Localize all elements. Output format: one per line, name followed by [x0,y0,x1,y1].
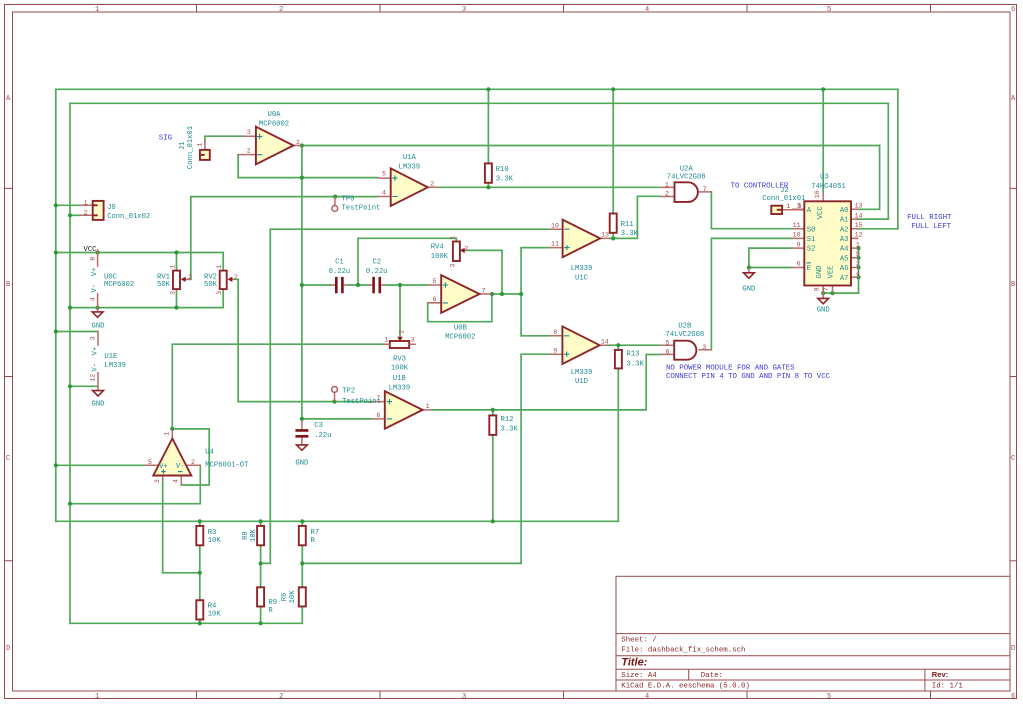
svg-text:LM339: LM339 [571,265,593,273]
wire U4 pin3 to R3/R4 node [163,480,200,573]
potentiometer RV3 [384,330,416,348]
ground symbol U3 [818,293,829,304]
svg-text:RV3: RV3 [393,356,406,364]
node R11 VCC [611,87,615,91]
wire C1C2 node to RV4 pin1 [358,238,456,285]
resistor R11 [610,214,617,233]
svg-text:A4: A4 [840,246,849,254]
svg-text:RV4: RV4 [431,244,444,252]
svg-text:3: 3 [154,479,161,483]
svg-text:100K: 100K [431,253,449,261]
wire RV3 pin1 to U4 out node [172,344,384,429]
svg-text:VCC: VCC [817,206,825,220]
svg-text:U1E: U1E [104,353,117,361]
svg-text:J0: J0 [107,204,116,212]
svg-text:74LVC2G08: 74LVC2G08 [665,331,704,339]
svg-text:LM339: LM339 [399,163,421,171]
svg-text:14: 14 [601,338,609,345]
connector J1 [197,140,210,160]
power unit U1E [90,332,100,387]
svg-text:3: 3 [449,263,456,267]
svg-text:C: C [1011,455,1015,463]
svg-text:2: 2 [191,459,195,466]
wire RV4 wiper to U0B out [466,250,502,294]
potentiometer RV2 [216,265,238,295]
wire C2 to U0B pin5 [385,284,428,286]
wire VCC to R10 top [487,89,489,163]
svg-text:R8: R8 [242,531,250,540]
svg-text:U3: U3 [820,174,829,182]
svg-text:1: 1 [95,693,99,701]
svg-text:A: A [807,207,812,215]
node U4 pin2 gnd [68,502,72,506]
svg-text:.22u: .22u [314,432,331,440]
svg-text:5: 5 [827,693,831,701]
svg-text:8: 8 [553,329,557,336]
svg-text:GND: GND [92,401,105,409]
node VCC rail left [54,250,58,254]
node R10 VCC [486,87,490,91]
node RV1 bottom [174,306,178,310]
svg-text:14: 14 [855,212,863,219]
wire to U1A pin5 [302,177,378,179]
svg-text:2: 2 [188,274,192,281]
svg-text:A3: A3 [840,236,849,244]
wire RV1 wiper stub [187,278,191,280]
svg-text:GND: GND [816,266,824,279]
wire VCC pullup rail bottom [56,520,619,522]
svg-text:5: 5 [666,340,670,347]
node R4 gnd [198,621,202,625]
svg-text:7: 7 [482,287,486,294]
node R8 top VCC [259,519,263,523]
power VCC flag [97,249,99,252]
svg-text:U0A: U0A [268,111,282,119]
svg-text:VCC: VCC [84,246,98,254]
svg-text:2: 2 [464,246,468,253]
svg-text:U1C: U1C [575,274,589,282]
svg-text:13: 13 [601,232,609,239]
resistor R3 [196,526,203,545]
power unit U0C [89,253,99,308]
resistor R9 [257,587,264,606]
svg-text:A7: A7 [840,275,849,283]
svg-text:V-: V- [91,284,99,293]
svg-text:D: D [1011,645,1015,653]
svg-text:A6: A6 [840,265,849,273]
svg-text:1: 1 [786,203,790,210]
node R3/R4 [198,571,202,575]
wire A0 drop [858,146,880,210]
svg-text:Rev:: Rev: [932,670,948,679]
wire GND bottom rail [70,622,302,624]
wire U3 A4-A7 strap [858,248,860,293]
side segment ticks [5,188,1017,560]
wire R3 bottom / R4 top [199,545,201,600]
wire RV2 bottom [222,291,224,308]
svg-text:R11: R11 [621,221,634,229]
node R13 top [616,343,620,347]
svg-text:1: 1 [84,199,88,206]
node U0A out [300,143,304,147]
svg-text:50K: 50K [157,281,171,289]
svg-text:MCP6002: MCP6002 [259,121,289,129]
wire J1 to U0A pin3 [205,136,243,141]
svg-text:3: 3 [247,129,251,136]
TITLEBLOCK [616,576,1010,691]
svg-text:CONNECT PIN 4 TO GND AND PIN 8: CONNECT PIN 4 TO GND AND PIN 8 TO VCC [666,373,831,381]
svg-text:6: 6 [666,348,670,355]
svg-text:5: 5 [382,171,386,178]
svg-text:TP0: TP0 [342,196,355,204]
svg-text:1: 1 [169,265,176,269]
svg-text:4: 4 [645,6,649,14]
op-amp U1B [372,391,433,429]
wire VCC to U4 pin5 [56,464,145,466]
svg-text:0.22u: 0.22u [329,268,351,276]
wire RV1 bottom [176,289,178,308]
node U3 pin16 VCC [821,87,825,91]
wire VCC top rail [56,88,898,90]
svg-text:NO POWER MODULE FOR AND GATES: NO POWER MODULE FOR AND GATES [666,365,795,373]
svg-text:TestPoint: TestPoint [342,205,381,213]
svg-text:13: 13 [855,203,863,210]
node S2/E gnd [747,265,751,269]
wire RV2 wiper to U1B pin7 [234,279,372,401]
svg-text:16: 16 [814,190,821,198]
svg-text:6: 6 [433,296,437,303]
connector J0 [80,199,104,220]
wire R12 bottom to VCC rail [492,435,494,521]
wire U2B out to S1 [711,238,792,349]
op-amp U1C [549,220,610,258]
svg-text:2: 2 [856,261,860,268]
svg-text:10: 10 [793,232,801,239]
node R7/R6 [300,561,304,565]
node R12 bottom VCC [491,519,495,523]
svg-text:GND: GND [817,307,830,315]
wire S2 to GND [749,248,792,267]
svg-text:TestPoint: TestPoint [342,398,381,406]
svg-text:R13: R13 [627,351,640,359]
svg-text:4: 4 [89,297,96,301]
svg-text:C1: C1 [335,258,344,266]
node R7 top VCC [300,519,304,523]
wire U1A out to U2A pin1 [438,186,661,188]
svg-text:12: 12 [90,374,97,382]
svg-text:C: C [6,455,10,463]
svg-text:R7: R7 [311,529,320,537]
resistor R8 [257,526,264,545]
svg-text:5: 5 [827,6,831,14]
svg-text:R: R [311,537,316,545]
node U0B out a [490,292,494,296]
node U1E pin3 [54,329,58,333]
svg-text:U1B: U1B [393,375,407,383]
node sig C1 [300,283,304,287]
svg-text:S1: S1 [807,236,816,244]
node R11 bottom [611,236,615,240]
svg-text:SIG: SIG [159,135,172,143]
wire R7 top [301,521,303,526]
wire VCC mid rail [56,252,223,254]
resistor R13 [615,350,622,369]
wire GND top rail [70,102,888,104]
svg-text:1: 1 [216,265,223,269]
svg-text:TP2: TP2 [342,387,355,395]
svg-text:3.3K: 3.3K [501,425,519,433]
top/bottom segment ticks [197,5,931,699]
node A5 [856,256,860,260]
svg-text:1: 1 [296,139,300,146]
svg-text:U2B: U2B [678,323,692,331]
svg-text:R10: R10 [496,166,509,174]
svg-text:GND: GND [742,286,755,294]
capacitor C3 [295,420,308,445]
wire C1 row [302,284,331,286]
wire R13 bottom to VCC rail [617,368,619,521]
svg-text:Sheet: /: Sheet: / [621,636,657,644]
svg-text:1: 1 [95,6,99,14]
svg-text:FULL RIGHT: FULL RIGHT [907,214,952,222]
capacitor C1 [331,277,348,293]
wire GND rail U0C/RV1/RV2 [70,307,223,309]
node A4 [856,246,860,250]
wire U1B out to U2B pin6 [432,355,660,410]
wire VCC to J0 pin1 [56,204,80,206]
svg-text:10K: 10K [289,590,297,604]
svg-text:J1: J1 [179,141,187,150]
svg-text:R4: R4 [208,602,217,610]
node U1E pin12 [68,384,72,388]
svg-text:R12: R12 [501,416,514,424]
svg-text:2: 2 [279,6,283,14]
wire VCC to R11 top [612,89,614,213]
svg-text:2: 2 [279,693,283,701]
svg-text:6: 6 [797,261,801,268]
svg-text:8: 8 [89,257,96,261]
svg-text:2: 2 [399,330,406,334]
wire VCC to U1E pin3 [56,331,98,333]
wire signal vertical [301,146,303,419]
node C1-C2/RV4 [356,283,360,287]
wire R6/R7 node to U1D pin9 [302,354,549,563]
wire sig to U1B pin6 [302,418,372,420]
svg-text:Size: A4: Size: A4 [621,672,657,680]
node RV1 top [174,250,178,254]
node GND rail left [68,306,72,310]
wire GND to U1E pin12 [70,385,98,387]
svg-text:U1A: U1A [403,154,417,162]
node A7 [856,275,860,279]
svg-text:C2: C2 [372,258,381,266]
svg-text:U2A: U2A [680,165,694,173]
svg-text:6: 6 [1011,693,1015,701]
resistor R10 [485,163,492,182]
svg-text:1: 1 [384,337,388,344]
svg-text:A1: A1 [840,217,849,225]
svg-text:5: 5 [148,459,152,466]
resistor R6 [299,587,306,606]
node U0B out c [519,292,523,296]
svg-text:74HC4051: 74HC4051 [811,183,846,191]
svg-text:VEE: VEE [827,266,835,279]
svg-text:2: 2 [430,180,434,187]
svg-text:4: 4 [856,270,860,277]
wire R3 top [199,521,201,526]
svg-text:100K: 100K [391,365,409,373]
svg-text:MCP6002: MCP6002 [445,334,475,342]
testpoint TP0 [332,197,338,212]
svg-text:10K: 10K [250,528,258,542]
svg-text:R3: R3 [208,529,217,537]
resistor R7 [299,526,306,545]
svg-text:10: 10 [551,222,559,229]
svg-text:V-: V- [91,363,99,372]
capacitor C2 [369,277,385,293]
svg-text:11: 11 [793,222,801,229]
node R3 top VCC [198,519,202,523]
svg-text:5: 5 [433,278,437,285]
svg-text:7: 7 [823,287,830,291]
wire R8/R9 node to U1C pin10 [261,229,550,563]
node U4 pin5 [54,463,58,467]
svg-text:U1D: U1D [575,378,588,386]
svg-text:6: 6 [1011,6,1015,14]
svg-text:File: dashback_fix_schem.sch: File: dashback_fix_schem.sch [621,647,745,655]
svg-text:4: 4 [645,693,649,701]
wire R8 top [260,521,262,526]
svg-text:3.3K: 3.3K [627,361,645,369]
svg-text:S0: S0 [807,226,816,234]
wire R9 bottom [260,607,262,624]
svg-text:2: 2 [84,209,88,216]
node R12 top [491,408,495,412]
node R9 gnd [259,621,263,625]
svg-text:GND: GND [295,460,308,468]
svg-text:1: 1 [449,236,456,240]
svg-text:3: 3 [797,203,801,210]
svg-text:Conn_01x01: Conn_01x01 [762,195,805,203]
wire VCC to U3 pin16 [822,89,824,192]
wire R6 bottom [301,607,303,624]
svg-text:Id: 1/1: Id: 1/1 [932,683,964,691]
wire GND left vertical [69,103,71,623]
node J0 pin1/VCC [54,203,58,207]
wire U0B out [492,293,521,295]
wire R4 bottom [199,620,201,624]
op-amp U4 [145,429,201,485]
node U0B out b [500,292,504,296]
svg-text:Date:: Date: [701,672,723,680]
svg-text:1: 1 [665,182,669,189]
ground symbol C3 [297,445,308,450]
svg-text:1: 1 [426,403,430,410]
svg-text:3.3K: 3.3K [621,230,639,238]
op-amp U0B [428,275,492,313]
svg-text:R6: R6 [281,593,289,602]
svg-text:50K: 50K [204,281,218,289]
svg-text:B: B [6,281,10,289]
svg-text:LM339: LM339 [389,385,411,393]
node R10 bottom [486,185,490,189]
node TP2 [332,400,336,404]
svg-text:2: 2 [247,147,251,154]
AND gate U2A [660,182,711,202]
svg-text:6: 6 [376,412,380,419]
node U3 pin8 gnd [821,291,825,295]
resistor R4 [196,600,203,619]
svg-text:3: 3 [462,693,466,701]
wire R12 top [492,410,494,416]
wire U4 feedback [172,429,209,485]
wire C1-C2 [348,284,369,286]
svg-text:1: 1 [856,241,860,248]
svg-text:8: 8 [814,287,821,291]
svg-text:V+: V+ [91,347,99,356]
node TP0 [333,195,337,199]
wire U0A out rail to U3 A0 [302,145,880,147]
svg-text:MCP6001-OT: MCP6001-OT [205,461,249,469]
node U0C pin4 [96,306,100,310]
wire U0B out to U1D pin8 [521,294,549,336]
wire U1D out to U2B pin5 [607,344,660,346]
wire GND to J0 pin2 [70,214,80,216]
svg-text:10K: 10K [208,537,222,545]
svg-text:A2: A2 [840,226,849,234]
ground symbol U0C [92,308,103,318]
svg-text:2: 2 [234,274,238,281]
svg-text:7: 7 [703,186,707,193]
wire VCC rail to U3 A2 [858,89,898,229]
ground symbol S2/E [744,268,755,279]
node C2-U0B/RV3 [398,283,402,287]
node J0 pin2/GND [68,213,72,217]
svg-text:KiCad E.D.A. eeschema (5.0.0): KiCad E.D.A. eeschema (5.0.0) [621,683,750,691]
wire U2A out to S0 [711,192,792,229]
svg-text:S2: S2 [807,246,816,254]
wire GND rail to U3 A1 [858,103,889,219]
svg-text:1: 1 [163,432,170,436]
svg-text:4: 4 [173,479,180,483]
wire U3 pins 8-7 gnd [823,292,858,294]
svg-text:74LVC2G08: 74LVC2G08 [667,174,706,182]
node sig C3 [300,417,304,421]
svg-text:9: 9 [553,347,557,354]
svg-text:2: 2 [665,191,669,198]
svg-text:9: 9 [797,241,801,248]
svg-text:E: E [807,265,811,273]
svg-text:0.22u: 0.22u [366,268,388,276]
svg-text:R: R [268,607,273,615]
svg-text:B: B [1011,281,1015,289]
svg-text:3: 3 [216,291,223,295]
node R8/R9 [259,561,263,565]
svg-text:A5: A5 [840,255,849,263]
wire VCC to RV1 top [176,253,178,271]
svg-text:3: 3 [411,337,415,344]
wire GND to U4 pin2 [70,465,200,503]
op-amp U1A [378,168,438,206]
wire R11 bottom [612,233,614,239]
wire R7 bottom / R6 top [301,545,303,587]
wire R8 bottom / R9 top [260,545,262,587]
wire R10 bottom [487,183,489,188]
svg-text:U4: U4 [205,448,214,456]
AND gate U2B [660,340,711,360]
svg-text:R9: R9 [268,599,277,607]
svg-text:Conn_01x01: Conn_01x01 [187,126,195,169]
